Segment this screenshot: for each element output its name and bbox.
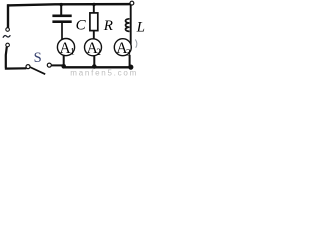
ammeter A1 circle: [57, 39, 74, 56]
wire left vertical from rail to source top terminal: [7, 4, 9, 28]
svg-text:L: L: [136, 20, 145, 36]
ammeter A2 circle: [85, 39, 102, 56]
inductor L vertical lead line: [130, 5, 132, 45]
AC source ~ symbol: [3, 35, 10, 38]
faint watermark arc fragment: [135, 39, 137, 47]
resistor R bottom lead: [93, 31, 95, 40]
inductor L coil arcs: [126, 19, 130, 32]
svg-text:S: S: [34, 50, 42, 66]
wire switch to A1 junction: [51, 64, 64, 66]
capacitor C bottom lead to A1: [61, 23, 63, 40]
svg-text:2: 2: [96, 47, 101, 57]
capacitor C top plate: [52, 15, 71, 18]
resistor R box: [90, 13, 98, 31]
AC source top terminal circle: [6, 28, 10, 32]
resistor R top lead: [93, 5, 95, 14]
capacitor C bottom plate: [52, 20, 71, 23]
ammeter A3 circle: [114, 39, 131, 56]
junction on top rail at capacitor: [60, 3, 63, 6]
junction dot A1 on bottom rail: [61, 64, 66, 69]
ammeter A3 bottom lead: [129, 55, 131, 68]
junction dot A2 on bottom rail: [92, 64, 97, 69]
svg-text:1: 1: [70, 47, 75, 57]
svg-text:manfen5.com: manfen5.com: [70, 69, 138, 77]
terminal circle at right end of top rail: [130, 1, 134, 5]
wire top rail: [7, 4, 133, 5]
switch S right contact circle: [47, 63, 51, 67]
wire from source bottom terminal down: [6, 47, 7, 68]
ammeter A2 bottom lead: [93, 55, 95, 66]
resistor R junction on top rail: [92, 3, 95, 6]
switch S left contact circle: [26, 65, 30, 69]
junction dot A3 at rail end: [128, 65, 133, 70]
switch S blade: [30, 67, 45, 74]
capacitor C top lead: [60, 5, 62, 15]
wire bottom rail: [63, 66, 133, 68]
svg-text:R: R: [103, 18, 113, 34]
wire bottom-left horizontal to switch: [5, 67, 27, 69]
svg-text:C: C: [76, 17, 87, 33]
ammeter A1 bottom lead: [63, 55, 65, 66]
AC source bottom terminal circle: [6, 43, 10, 47]
